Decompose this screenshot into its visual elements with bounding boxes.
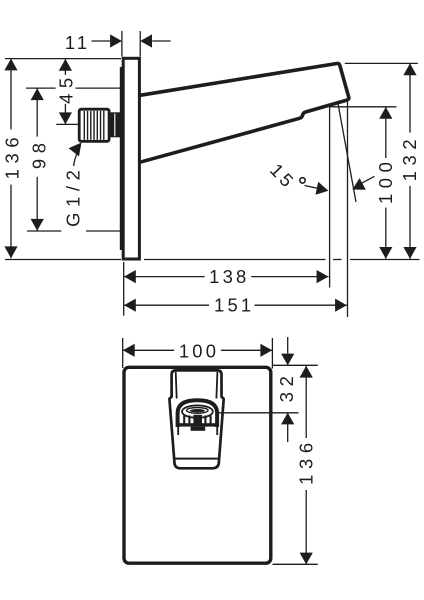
dim 98: [31, 88, 44, 100]
wall plate front view: [124, 367, 271, 563]
dim 136: [4, 59, 17, 71]
ext line plate top right: [273, 364, 318, 366]
svg-text:132: 132: [399, 134, 420, 181]
ext line outlet vertical: [329, 106, 331, 288]
svg-text:151: 151: [214, 295, 254, 316]
ext line plate top level: [5, 58, 121, 60]
dim 32: [287, 337, 289, 354]
aerator ellipse inner: [187, 408, 208, 414]
ext line plate bottom right b: [333, 259, 342, 261]
aerator slats: [183, 416, 185, 424]
svg-text:G1/2: G1/2: [63, 165, 84, 227]
dim 132: [403, 63, 416, 75]
ext line plate bottom right a: [144, 259, 326, 261]
ext line plate bottom right: [273, 563, 318, 565]
ext line y231 right part: [86, 230, 121, 232]
wall plate side view: [123, 58, 139, 259]
15 deg leader arrows: [305, 186, 318, 189]
svg-text:100: 100: [179, 341, 219, 362]
ext line spout tip vertical: [347, 102, 349, 317]
dim 151: [124, 299, 136, 312]
ext line outlet level: [330, 106, 396, 108]
ext line outlet center: [218, 412, 299, 414]
aerator ellipse outer: [182, 405, 213, 417]
aerator bottom band: [179, 423, 217, 426]
svg-text:136: 136: [296, 437, 317, 484]
plate flange left edge: [120, 67, 122, 250]
spout tip bottom edge front: [174, 458, 220, 460]
dim 136 front: [300, 366, 313, 378]
ext line y231 left part: [27, 230, 62, 232]
dim 100 front ext lines: [122, 338, 124, 368]
spout top face inner lines: [176, 372, 177, 399]
svg-text:136: 136: [2, 132, 23, 179]
housing side ticks: [177, 427, 179, 435]
svg-text:11: 11: [65, 32, 91, 53]
dim 11 extension lines: [121, 31, 123, 57]
thread collar: [109, 112, 121, 137]
dim 100 side: [379, 107, 392, 119]
ext line thread center: [56, 123, 78, 125]
aerator center tab: [191, 427, 206, 431]
svg-text:138: 138: [209, 266, 249, 287]
degree symbol: [300, 178, 305, 183]
svg-text:32: 32: [276, 371, 297, 403]
dim 45: [59, 59, 72, 71]
ext line plate left bottom vertical: [123, 262, 125, 316]
thread stripe: [83, 111, 85, 140]
aerator housing arch: [178, 400, 218, 427]
dim 100 front: [123, 344, 135, 357]
dim 11: [92, 40, 111, 42]
ext line plate bottom left: [5, 259, 121, 261]
aerator slot: [190, 409, 205, 412]
svg-text:100: 100: [375, 157, 396, 204]
svg-text:45: 45: [55, 72, 76, 104]
ext line y88 right part: [76, 87, 122, 89]
dim 138: [124, 270, 136, 283]
ext line y88 left part: [26, 87, 56, 89]
svg-text:15: 15: [266, 159, 300, 193]
spout body side view: [140, 63, 349, 162]
ext line spout top level: [345, 62, 418, 64]
svg-text:98: 98: [29, 137, 50, 169]
ext line plate bottom right c: [350, 259, 420, 261]
spout outer outline front view: [169, 370, 223, 468]
G1/2 thread block: [79, 109, 109, 141]
G1/2 leader: [74, 151, 79, 167]
15 deg slant line: [338, 103, 356, 203]
